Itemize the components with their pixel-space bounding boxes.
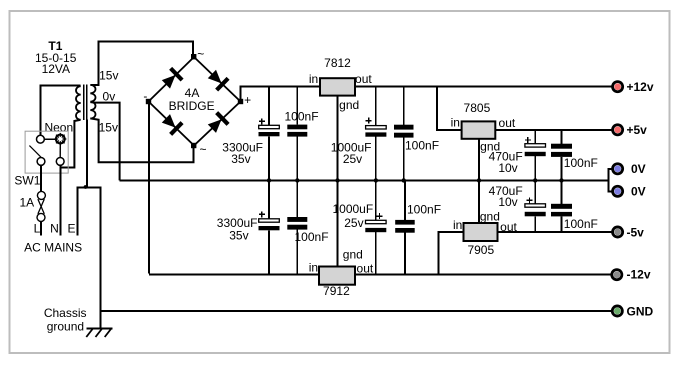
regulator U1 7812: [320, 78, 355, 95]
wire 7905 input feed: [439, 232, 464, 275]
transformer T1 secondary winding: [90, 85, 95, 119]
junction U1/U4 gnd on ground rail: [335, 178, 339, 182]
junction C6/C12 on ground rail: [559, 178, 563, 182]
svg-text:12VA: 12VA: [42, 62, 70, 76]
node bridge AC bottom: [191, 143, 196, 148]
svg-text:gnd: gnd: [343, 247, 363, 261]
junction C5/C11 on ground rail: [533, 178, 537, 182]
bridge diode D3 (minus to AC bottom): [160, 112, 182, 134]
wire secondary 15v top to bridge AC top: [90, 42, 192, 85]
wire 7912 ground stub: [337, 180, 339, 267]
wire 7805 ground stub: [478, 139, 480, 181]
capacitor C8 100nF (negative rail): [287, 180, 307, 274]
wire primary top lead to switch: [41, 86, 81, 136]
wire 7812 ground stub: [337, 95, 339, 180]
svg-text:SW1: SW1: [14, 173, 40, 187]
svg-text:100nF: 100nF: [407, 203, 441, 217]
transformer T1 core: [83, 85, 85, 121]
wire -12v rail: [149, 274, 612, 276]
svg-text:Neon: Neon: [44, 120, 73, 134]
svg-text:Chassis: Chassis: [44, 306, 87, 320]
svg-text:0V: 0V: [631, 162, 646, 176]
svg-text:25v: 25v: [343, 152, 362, 166]
svg-text:gnd: gnd: [480, 209, 500, 223]
svg-text:in: in: [309, 72, 318, 86]
wire bridge minus to negative rail: [148, 102, 150, 274]
capacitor C9 1000uF 25v (7912 input): [365, 180, 386, 274]
svg-text:7912: 7912: [323, 284, 350, 298]
svg-text:100nF: 100nF: [285, 109, 319, 123]
node bridge AC top: [191, 54, 196, 59]
svg-text:L: L: [34, 221, 41, 235]
svg-text:10v: 10v: [498, 161, 517, 175]
svg-text:gnd: gnd: [480, 140, 500, 154]
wire 0V ground rail: [120, 179, 610, 181]
svg-text:7905: 7905: [467, 243, 494, 257]
regulator U3 7905: [464, 223, 498, 241]
wire chassis GND rail: [101, 310, 612, 312]
terminal -12v: [610, 268, 623, 281]
transformer T1 primary winding: [76, 86, 81, 120]
junction C1/C7 on ground rail: [267, 178, 271, 182]
bridge diode D1 (minus to AC top): [160, 68, 182, 90]
capacitor C2 100nF (positive rail): [287, 87, 307, 180]
wire chassis drop: [100, 188, 102, 329]
capacitor C4 100nF (7812 input): [394, 87, 414, 180]
svg-text:in: in: [453, 218, 462, 232]
bridge diode D4 (AC bottom to plus): [206, 113, 228, 135]
switch SW1: [29, 135, 64, 165]
regulator U2 7805: [462, 121, 496, 138]
svg-text:ground: ground: [47, 320, 84, 334]
terminal -5v: [611, 226, 624, 239]
wire E terminal to screen bracket: [76, 187, 78, 236]
svg-text:10v: 10v: [498, 195, 517, 209]
wire secondary 15v bottom to bridge AC bottom: [90, 118, 193, 162]
svg-text:in: in: [309, 261, 318, 275]
terminal +12v: [611, 80, 624, 93]
capacitor C11 470uF 10v (-5v output): [525, 180, 546, 232]
wire neon to switch lower contact: [59, 144, 61, 158]
svg-text:-12v: -12v: [627, 268, 651, 282]
bridge rectifier BR1 diamond: [149, 57, 241, 146]
svg-text:+12v: +12v: [627, 80, 654, 94]
wire primary bottom lead to switch contact: [60, 120, 80, 168]
wire screen bracket: [76, 187, 101, 189]
svg-text:35v: 35v: [229, 229, 248, 243]
svg-text:in: in: [451, 115, 460, 129]
regulator U4 7912: [319, 267, 355, 285]
wire 7805 input feed: [437, 87, 462, 130]
wire +5v output line: [495, 129, 612, 131]
junction C2/C8 on ground rail: [295, 178, 299, 182]
svg-text:100nF: 100nF: [564, 156, 598, 170]
svg-text:25v: 25v: [344, 216, 363, 230]
svg-text:1000uF: 1000uF: [332, 202, 373, 216]
svg-text:E: E: [67, 221, 75, 235]
junction C3/C9 on ground rail: [374, 178, 378, 182]
svg-text:~: ~: [197, 47, 204, 61]
svg-text:1A: 1A: [19, 196, 34, 210]
terminal GND: [611, 305, 624, 318]
wire centre tap 0v to ground rail: [90, 102, 119, 180]
terminal 0V upper: [611, 162, 624, 175]
svg-text:15v: 15v: [99, 121, 118, 135]
capacitor C10 100nF (7912 input): [395, 180, 415, 274]
chassis ground symbol: [86, 328, 112, 337]
svg-text:+5v: +5v: [627, 123, 648, 137]
svg-text:+: +: [244, 93, 251, 107]
svg-text:AC MAINS: AC MAINS: [24, 240, 82, 254]
svg-text:BRIDGE: BRIDGE: [169, 99, 215, 113]
capacitor C12 100nF (-5v output): [551, 180, 572, 232]
capacitor C1 3300uF 35v (positive rail reservoir): [259, 87, 280, 180]
wire 7905 ground stub: [478, 180, 480, 223]
svg-text:out: out: [357, 262, 374, 276]
svg-text:15v: 15v: [99, 68, 118, 82]
neon indicator lamp: [54, 133, 66, 145]
capacitor C5 470uF 10v (+5v output): [525, 130, 546, 181]
wire transformer screen down: [86, 120, 88, 188]
svg-text:gnd: gnd: [339, 98, 359, 112]
svg-text:GND: GND: [627, 304, 654, 318]
wire N terminal: [59, 165, 61, 235]
bridge diode D2 (AC top to plus): [206, 68, 228, 90]
svg-text:7805: 7805: [464, 101, 491, 115]
junction screen bracket: [84, 185, 88, 189]
svg-text:N: N: [50, 221, 59, 235]
svg-text:100nF: 100nF: [564, 217, 598, 231]
wire fuse to L terminal: [40, 221, 42, 235]
capacitor C6 100nF (+5v output): [551, 130, 572, 181]
svg-text:100nF: 100nF: [405, 139, 439, 153]
wire switch to fuse: [40, 165, 42, 191]
fuse 1A: [37, 191, 45, 221]
wire bridge plus riser: [240, 87, 242, 102]
wire -5v output line: [497, 231, 612, 233]
svg-text:-: -: [143, 89, 147, 103]
wire 0V bracket: [608, 169, 612, 192]
svg-text:0v: 0v: [103, 90, 116, 104]
terminal 0V lower: [611, 185, 624, 198]
junction U2/U3 gnd on ground rail: [477, 178, 481, 182]
svg-text:0V: 0V: [631, 185, 646, 199]
svg-text:-5v: -5v: [627, 225, 645, 239]
svg-text:~: ~: [199, 142, 206, 156]
svg-text:out: out: [499, 116, 516, 130]
node bridge minus: [146, 99, 151, 104]
capacitor C3 1000uF 25v (7812 input): [365, 87, 386, 180]
wire +12v rail: [240, 86, 613, 88]
terminal +5v: [611, 123, 624, 136]
capacitor C7 3300uF 35v (negative rail reservoir): [259, 180, 280, 274]
junction C4/C10 on ground rail: [402, 178, 406, 182]
switch SW1 enclosure box: [25, 131, 68, 173]
svg-text:4A: 4A: [185, 86, 200, 100]
node bridge plus: [238, 99, 243, 104]
svg-text:7812: 7812: [324, 56, 351, 70]
svg-text:out: out: [355, 72, 372, 86]
wire switch to neon: [44, 138, 55, 140]
svg-text:35v: 35v: [231, 152, 250, 166]
svg-text:out: out: [500, 220, 517, 234]
svg-text:100nF: 100nF: [295, 230, 329, 244]
